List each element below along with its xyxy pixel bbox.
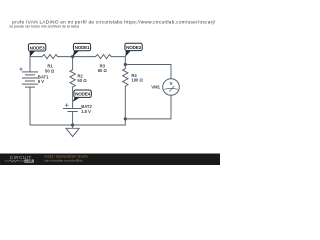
wire VM1 top branch <box>125 65 171 79</box>
battery BAT1 <box>19 67 38 87</box>
svg-text:9 V: 9 V <box>38 79 44 84</box>
junction node at VM1 bottom tee <box>124 117 127 120</box>
svg-text:50 Ω: 50 Ω <box>77 78 87 83</box>
svg-text:NODE2: NODE2 <box>126 45 141 50</box>
svg-text:1.5 V: 1.5 V <box>81 109 91 114</box>
BAT2 plus sign <box>65 104 69 106</box>
svg-text:NODE3: NODE3 <box>30 45 45 50</box>
wire NODE2 corner down to VM1 tee <box>124 57 126 69</box>
wire R4 bottom to bottom-right corner <box>124 87 126 125</box>
wire bottom: left corner to R4 corner <box>30 124 125 126</box>
wire R3 to NODE2 corner <box>111 56 125 58</box>
junction node at VM1 top tee <box>124 63 127 66</box>
resistor R3 zigzag <box>96 55 112 59</box>
battery BAT2 <box>63 103 82 111</box>
voltmeter VM1 <box>163 79 180 96</box>
footer logo zigzag <box>5 160 25 162</box>
wire R2 to BAT2 <box>72 87 74 109</box>
svg-text:se puede ver todos mis archivo: se puede ver todos mis archivos de la ta… <box>9 25 79 29</box>
ground <box>66 125 79 137</box>
wire R1 to NODE1 junction <box>58 56 96 58</box>
svg-text:NODE4: NODE4 <box>75 92 90 97</box>
wire top: node3 corner to node2 corner <box>30 56 42 58</box>
wire left vertical BAT1 bottom lead <box>29 87 31 125</box>
node label NODE4 <box>73 90 92 102</box>
svg-text:NODE1: NODE1 <box>75 45 90 50</box>
node label NODE1 <box>73 43 91 56</box>
resistor R1 zigzag <box>42 55 58 59</box>
wire left vertical BAT1 top lead <box>29 57 31 72</box>
svg-text:http://circuitlab.com/c6vs384q: http://circuitlab.com/c6vs384q <box>44 159 82 163</box>
wire VM1 bottom return <box>125 95 171 119</box>
node label NODE3 <box>28 44 45 57</box>
svg-text:LAB: LAB <box>26 159 34 163</box>
svg-text:50 Ω: 50 Ω <box>45 68 55 73</box>
svg-text:50 Ω: 50 Ω <box>98 68 108 73</box>
node label NODE2 <box>125 43 142 57</box>
footer logo LAB <box>24 159 34 162</box>
wire BAT2 bottom lead <box>72 112 74 126</box>
svg-text:VM1: VM1 <box>151 85 160 90</box>
junction node at ground <box>71 123 74 126</box>
resistor R2 zigzag <box>70 70 75 87</box>
resistor R4 zigzag <box>123 69 128 87</box>
junction node at NODE1 <box>71 55 74 58</box>
wire middle branch top lead <box>72 57 74 70</box>
svg-text:100 Ω: 100 Ω <box>131 77 143 82</box>
footer bar <box>0 154 220 166</box>
BAT1 plus sign <box>19 68 22 70</box>
